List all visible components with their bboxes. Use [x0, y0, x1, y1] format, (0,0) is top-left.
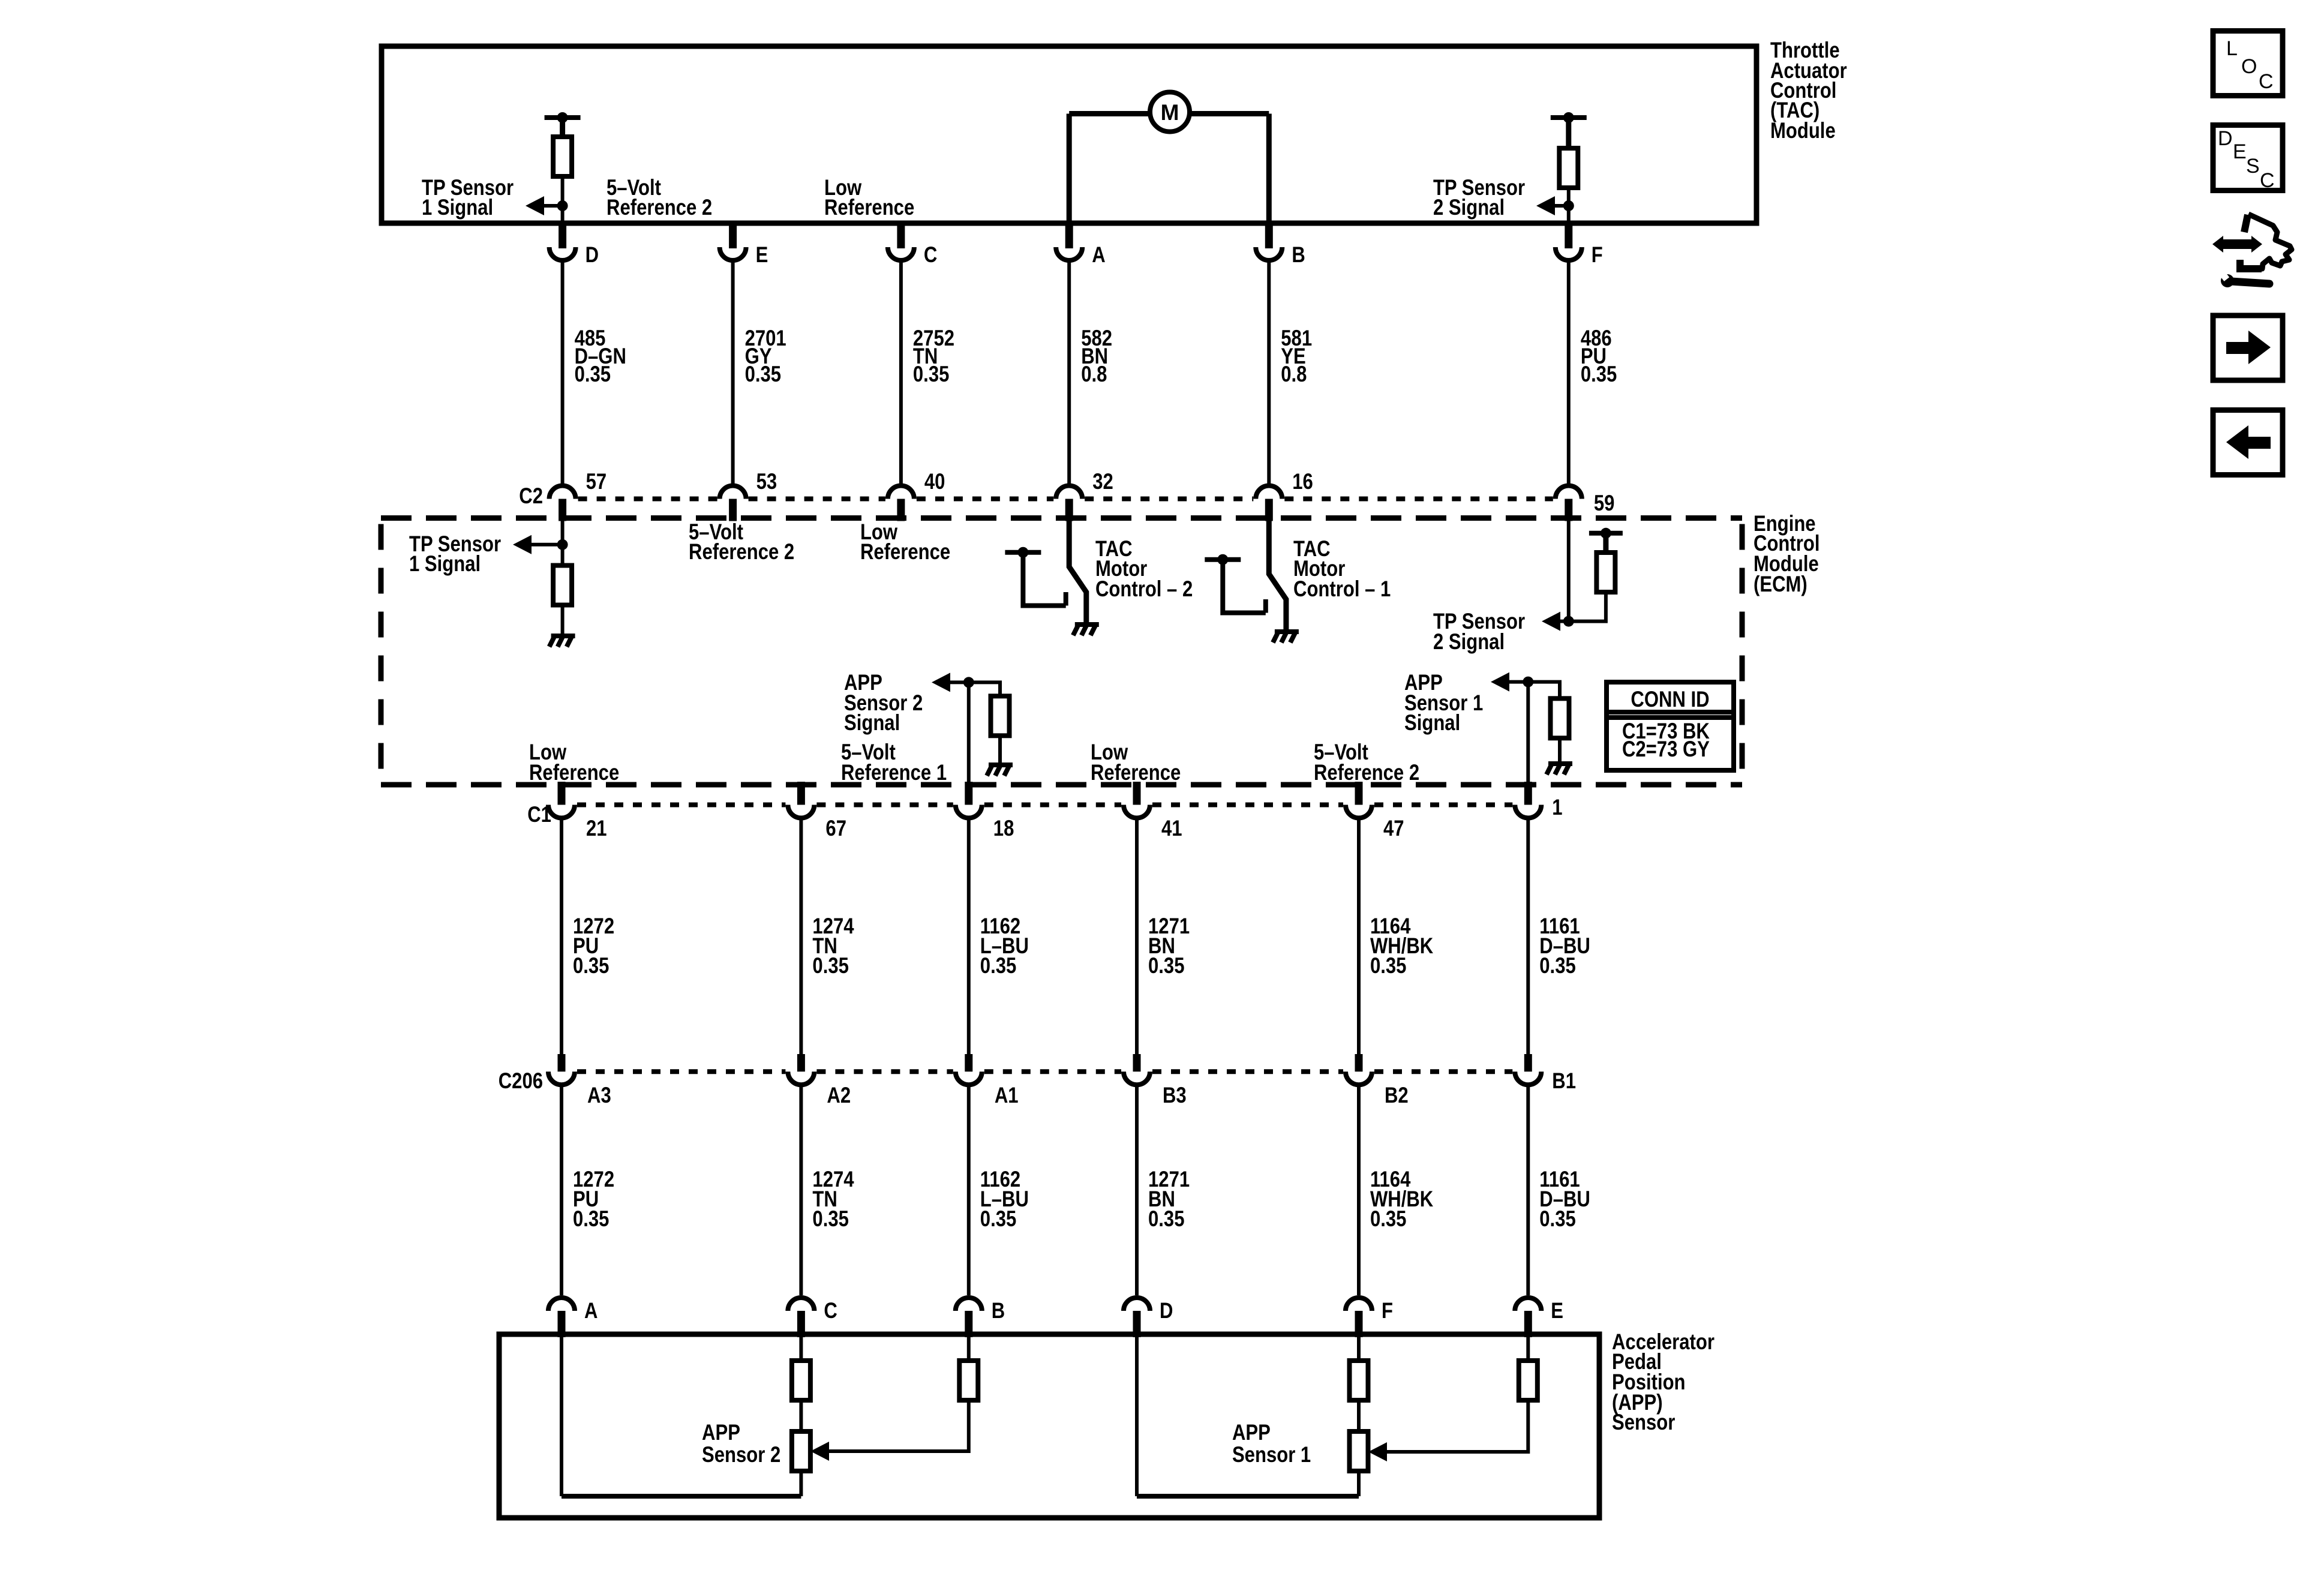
- C1 pin stub 41: [1133, 782, 1141, 805]
- wire: pin D down: [1135, 1334, 1139, 1496]
- C206 terminal A2: [788, 1071, 814, 1085]
- wire: motor right leg: [1266, 114, 1272, 224]
- label: TP Sensor 1 Signal (ECM): [409, 532, 501, 577]
- svg-text:41: 41: [1161, 816, 1182, 841]
- wire: C resistor to pot: [799, 1400, 803, 1431]
- resistor: TP sensor 1 load (ECM): [553, 566, 572, 605]
- APP pin terminal A: [548, 1298, 575, 1311]
- wire: B down to C2: [1267, 260, 1271, 484]
- wire: control bracket 1: [1223, 560, 1266, 613]
- junction: TP sensor 2 (ECM): [1563, 616, 1574, 627]
- svg-text:O: O: [2241, 55, 2257, 78]
- pin label A: [1092, 243, 1105, 268]
- resistor: APP sensor 1 load: [1551, 698, 1569, 738]
- tick up: control bracket 2: [1064, 592, 1068, 606]
- C1 pin number 21: [586, 816, 607, 841]
- label: APP Sensor 2: [702, 1421, 780, 1467]
- label: APP Sensor 1: [1232, 1421, 1311, 1467]
- potentiometer: APP Sensor 2: [792, 1431, 810, 1471]
- ground: TAC motor control 1: [1273, 629, 1299, 643]
- wire: C down to C2: [899, 260, 903, 484]
- C1 terminal 21: [548, 805, 575, 818]
- wire: C206-A1 down to APP: [967, 1085, 971, 1295]
- APP pin label B: [992, 1299, 1005, 1323]
- svg-text:1: 1: [1552, 795, 1562, 820]
- wire: C1-41 down to C206: [1135, 818, 1139, 1056]
- wire: arrow line APP2: [950, 680, 969, 684]
- APP pin stub D: [1133, 1311, 1141, 1337]
- wire: arrow line APP1: [1509, 680, 1528, 684]
- label: TP Sensor 2 Signal (TAC): [1433, 176, 1525, 220]
- wire: pot 2 bottom: [799, 1471, 803, 1496]
- resistor: TP sensor 1 pull-up: [553, 137, 572, 176]
- C2 harness dotted segment 2: [749, 497, 885, 502]
- icon: connector outline (hand): [2245, 214, 2292, 269]
- label: Throttle Actuator Control (TAC) Module: [1770, 38, 1847, 143]
- APP pin stub E: [1524, 1311, 1532, 1337]
- svg-text:16: 16: [1292, 470, 1313, 494]
- ground: TAC motor control 2: [1073, 622, 1099, 635]
- wire: B resistor to wiper: [829, 1400, 969, 1451]
- svg-text:B2: B2: [1385, 1083, 1409, 1108]
- wire: C206-B1 down to APP: [1526, 1085, 1530, 1295]
- svg-text:A2: A2: [827, 1083, 851, 1108]
- wire: control bracket 2: [1023, 553, 1065, 606]
- APP pin stub B: [965, 1311, 972, 1337]
- C1 harness dotted segment 1: [577, 803, 785, 807]
- tick up: control bracket 1: [1263, 599, 1268, 613]
- wire: F down to C2: [1567, 260, 1571, 484]
- pin terminal C (TAC): [888, 247, 914, 260]
- wire: pin B to resistor: [967, 1334, 971, 1361]
- APP pin label A: [584, 1299, 597, 1323]
- svg-text:F: F: [1382, 1299, 1393, 1323]
- C1 harness dotted segment 2: [816, 803, 953, 807]
- wire label 1271 (lower): [1148, 1167, 1190, 1232]
- wire: resistor to ground TP1: [561, 605, 565, 634]
- supply bar: TP sensor 2 (ECM): [1589, 531, 1623, 536]
- wire label 2752: [913, 326, 954, 387]
- connector C206 label: [499, 1069, 543, 1094]
- pin label C: [924, 243, 937, 268]
- svg-text:A: A: [584, 1299, 597, 1323]
- C1 harness dotted segment 5: [1374, 803, 1512, 807]
- wire: resistor 2 to junction: [1567, 188, 1571, 223]
- C1 pin stub 18: [965, 782, 972, 805]
- wire label 1272 (lower): [573, 1167, 614, 1232]
- wire: APP1 resistor to ground: [1558, 738, 1562, 761]
- wire: APP2 junction down to C1-18: [967, 682, 971, 804]
- C206 pin label B2: [1385, 1083, 1409, 1108]
- svg-text:21: 21: [586, 816, 607, 841]
- APP pin terminal D: [1124, 1298, 1150, 1311]
- wire label 1271 (upper): [1148, 914, 1190, 978]
- C206 pin stub B2: [1355, 1054, 1363, 1071]
- junction: TP sensor 1 signal: [557, 200, 568, 211]
- icon: double arrow: [2212, 236, 2262, 253]
- pin terminal A (TAC): [1056, 247, 1082, 260]
- pin label B: [1292, 243, 1305, 268]
- supply bar (TP sensor 1 pull-up): [545, 115, 581, 120]
- svg-text:ThrottleActuatorControl(TAC)Mo: ThrottleActuatorControl(TAC)Module: [1770, 38, 1847, 143]
- wire label 1162 (upper): [980, 914, 1029, 978]
- wire: C1-21 down to C206: [560, 818, 563, 1056]
- pin stub A (TAC): [1065, 223, 1073, 248]
- ECM box (dashed): [381, 518, 1742, 785]
- CONN ID title: [1631, 688, 1709, 712]
- wire: APP2 junction to resistor: [969, 682, 1000, 696]
- wire label 1161 (lower): [1539, 1167, 1590, 1232]
- C2 pin stub 32: [1065, 499, 1073, 521]
- pin terminal F (TAC): [1556, 247, 1582, 260]
- wire label 1161 (upper): [1539, 914, 1590, 978]
- C1 pin number 18: [993, 816, 1014, 841]
- label: APP Sensor 2 Signal: [844, 671, 923, 736]
- svg-text:53: 53: [756, 470, 777, 494]
- wire: TP2 resistor to junction: [1569, 592, 1606, 622]
- dot on control bar 1: [1217, 554, 1228, 565]
- wire: C1-47 down to C206: [1357, 818, 1361, 1056]
- C1 pin stub 67: [797, 782, 805, 805]
- icon: hand stub bottom: [2240, 260, 2262, 269]
- resistor: TP sensor 2 load (ECM): [1596, 553, 1615, 592]
- C206 terminal B3: [1124, 1071, 1150, 1085]
- label: 5-Volt Reference 1 (ECM bottom): [841, 740, 947, 785]
- label: Low Reference (ECM bottom left): [529, 740, 619, 785]
- svg-text:F: F: [1592, 243, 1603, 268]
- supply bar (TP sensor 2 pull-up): [1551, 115, 1587, 120]
- arrowhead: APP1 wiper: [1368, 1442, 1387, 1461]
- arrowhead: TP Sensor 1 Signal (ECM): [513, 535, 532, 554]
- C2 terminal 16: [1256, 486, 1282, 499]
- C1 terminal 47: [1346, 805, 1372, 818]
- wire: resistor to junction: [561, 176, 565, 223]
- wire label 1274 (lower): [812, 1167, 854, 1232]
- connector C1 label: [527, 803, 551, 827]
- label: Engine Control Module (ECM): [1753, 512, 1819, 597]
- C2 harness dotted segment 1: [578, 497, 717, 502]
- svg-text:D: D: [2218, 127, 2233, 150]
- wire: pin E to resistor: [1526, 1334, 1530, 1361]
- motor M circle: [1150, 92, 1190, 132]
- wire: motor loop left: [1069, 111, 1150, 116]
- C206 terminal A3: [548, 1071, 575, 1085]
- C206 pin label A3: [587, 1083, 611, 1108]
- C1 terminal 1: [1515, 805, 1541, 818]
- C206 terminal B2: [1346, 1071, 1372, 1085]
- svg-text:B1: B1: [1552, 1069, 1576, 1094]
- wire: bar to resistor: [560, 118, 565, 137]
- svg-text:C206: C206: [499, 1069, 543, 1094]
- wire: C2-59 to junction: [1567, 518, 1571, 622]
- wire: D down to C2: [561, 260, 565, 484]
- wire: C206-A2 down to APP: [799, 1085, 803, 1295]
- pin stub B (TAC): [1265, 223, 1273, 248]
- arrowhead: APP Sensor 2 Signal: [932, 673, 950, 692]
- label: TP Sensor 1 Signal (TAC): [422, 176, 514, 220]
- wire: APP1 bottom link: [1137, 1494, 1359, 1499]
- resistor: APP2 upper (pin C): [792, 1361, 810, 1400]
- arrowhead: APP2 wiper: [810, 1442, 829, 1461]
- wire: TP sensor 2 arrow line: [1554, 204, 1569, 208]
- wire: pin C to resistor: [799, 1334, 803, 1361]
- C2 pin stub 40: [897, 499, 905, 521]
- resistor: APP1 wiper feed (pin E): [1519, 1361, 1538, 1400]
- resistor: TP sensor 2 pull-up: [1559, 148, 1578, 188]
- wire: APP2 resistor to ground: [998, 736, 1002, 763]
- APP pin terminal C: [788, 1298, 814, 1311]
- ground: APP sensor 2: [987, 763, 1013, 776]
- pin stub F (TAC): [1565, 223, 1572, 248]
- icon: hand stub top: [2244, 215, 2248, 232]
- svg-text:E: E: [756, 243, 768, 268]
- C206 harness dotted segment 1: [577, 1069, 785, 1074]
- C2 harness dotted segment 4: [1085, 497, 1253, 502]
- C2 pin stub 57: [559, 499, 566, 521]
- svg-text:D: D: [1160, 1299, 1173, 1323]
- C2 pin number 57: [586, 470, 607, 494]
- C2 pin number 53: [756, 470, 777, 494]
- C2 harness dotted segment 5: [1284, 497, 1553, 502]
- label: TAC Motor Control - 2: [1095, 537, 1193, 602]
- APP sensor box: [499, 1334, 1599, 1518]
- wire label 2701: [745, 326, 786, 387]
- svg-text:C1=73 BKC2=73 GY: C1=73 BKC2=73 GY: [1622, 719, 1710, 762]
- wire label 1164 (lower): [1370, 1167, 1434, 1232]
- label: TP Sensor 2 Signal (ECM): [1433, 610, 1525, 655]
- wire: C1-18 down to C206: [967, 818, 971, 1056]
- C2 pin number 40: [924, 470, 945, 494]
- wire: A down to C2: [1067, 260, 1071, 484]
- APP pin label F: [1382, 1299, 1393, 1323]
- C2 harness dotted segment 3: [917, 497, 1053, 502]
- wire label 1274 (upper): [812, 914, 854, 978]
- svg-text:C2: C2: [519, 484, 543, 509]
- C1 pin number 41: [1161, 816, 1182, 841]
- C1 harness dotted segment 3: [984, 803, 1121, 807]
- pin label E: [756, 243, 768, 268]
- C206 terminal A1: [956, 1071, 982, 1085]
- pin label F: [1592, 243, 1603, 268]
- C206 pin stub B3: [1133, 1054, 1141, 1071]
- svg-text:B3: B3: [1163, 1083, 1187, 1108]
- APP pin terminal E: [1515, 1298, 1541, 1311]
- wire: E down to C2: [731, 260, 735, 484]
- wire label 1162 (lower): [980, 1167, 1029, 1232]
- C206 terminal B1: [1515, 1071, 1541, 1085]
- pin stub C (TAC): [897, 223, 905, 248]
- pin terminal B (TAC): [1256, 247, 1282, 260]
- wire: C1-67 down to C206: [799, 818, 803, 1056]
- wire: APP2 bottom link: [562, 1494, 801, 1499]
- svg-text:C: C: [2259, 70, 2274, 93]
- resistor: APP sensor 2 load: [991, 696, 1010, 736]
- C206 pin label B1: [1552, 1069, 1576, 1094]
- label: 5-Volt Reference 2 (ECM bottom): [1314, 740, 1419, 785]
- wire: C2-57 to junction: [561, 518, 565, 566]
- C2 terminal 59: [1556, 486, 1582, 499]
- svg-text:B: B: [1292, 243, 1305, 268]
- wire: C206-B2 down to APP: [1357, 1085, 1361, 1295]
- wire: pot 1 bottom: [1357, 1471, 1361, 1496]
- arrowhead: APP Sensor 1 Signal: [1491, 673, 1509, 692]
- wire: motor left leg: [1067, 114, 1072, 224]
- svg-text:A1: A1: [995, 1083, 1019, 1108]
- svg-text:59: 59: [1594, 491, 1615, 516]
- svg-text:C: C: [2260, 169, 2275, 192]
- icon: left arrow: [2226, 425, 2271, 459]
- svg-text:47: 47: [1383, 816, 1404, 841]
- junction dot on supply bar 2: [1563, 112, 1574, 123]
- CONN ID values: [1622, 719, 1710, 762]
- connector C2 label: [519, 484, 543, 509]
- C1 harness dotted segment 4: [1152, 803, 1343, 807]
- C206 pin label A2: [827, 1083, 851, 1108]
- svg-text:CONN ID: CONN ID: [1631, 688, 1709, 712]
- C2 pin stub 16: [1265, 499, 1273, 521]
- wire: TP sensor 1 arrow line: [543, 204, 563, 208]
- wire: arrow line TP1 (ECM): [532, 543, 563, 547]
- label: Low Reference (ECM bottom right): [1091, 740, 1181, 785]
- C206 pin stub B1: [1524, 1054, 1532, 1071]
- pin stub D (TAC): [559, 223, 566, 248]
- APP pin label D: [1160, 1299, 1173, 1323]
- wire: arrow line TP2 (ECM): [1560, 620, 1569, 623]
- wire: C1-1 down to C206: [1526, 818, 1530, 1056]
- C2 terminal 40: [888, 486, 914, 499]
- APP pin label C: [824, 1299, 837, 1323]
- C2 pin number 32: [1092, 470, 1113, 494]
- control bar: TAC motor control 2: [1005, 550, 1041, 555]
- C206 pin label A1: [995, 1083, 1019, 1108]
- wire label 486: [1581, 326, 1617, 387]
- C2 terminal 57: [550, 486, 576, 499]
- wire: pin A down: [560, 1334, 563, 1496]
- label: 5-Volt Reference 2 (ECM top): [689, 520, 794, 565]
- wire: motor control 2 switch to ground: [1069, 518, 1086, 623]
- C1 terminal 41: [1124, 805, 1150, 818]
- APP pin terminal F: [1346, 1298, 1372, 1311]
- svg-text:57: 57: [586, 470, 607, 494]
- wire: bar to resistor 2: [1566, 118, 1571, 148]
- svg-text:67: 67: [825, 816, 846, 841]
- wire: APP1 junction down to C1-1: [1526, 682, 1530, 805]
- C2 terminal 53: [720, 486, 746, 499]
- ground: TP sensor 1 (ECM): [550, 634, 575, 647]
- icon box: LOC: [2213, 31, 2283, 96]
- dot on TP2 supply bar: [1601, 528, 1611, 539]
- icon: wrench: [2218, 269, 2269, 287]
- label: APP Sensor 1 Signal: [1404, 671, 1483, 736]
- svg-text:D: D: [585, 243, 599, 268]
- resistor: APP2 wiper feed (pin B): [959, 1361, 978, 1400]
- C206 harness dotted segment 3: [984, 1069, 1121, 1074]
- wire: F resistor to pot: [1357, 1400, 1361, 1431]
- C2 terminal 32: [1056, 486, 1082, 499]
- C1 pin stub 1: [1524, 782, 1532, 805]
- svg-text:B: B: [992, 1299, 1005, 1323]
- wire: C206-B3 down to APP: [1135, 1085, 1139, 1295]
- ground: APP sensor 1: [1547, 761, 1572, 775]
- C1 pin stub 21: [558, 782, 566, 805]
- resistor: APP1 upper (pin F): [1350, 1361, 1368, 1400]
- pin terminal D (TAC): [550, 247, 576, 260]
- TAC module box: [382, 46, 1756, 223]
- wire label 582: [1081, 326, 1112, 387]
- APP pin terminal B: [956, 1298, 982, 1311]
- APP pin label E: [1551, 1299, 1563, 1323]
- svg-text:40: 40: [924, 470, 945, 494]
- label: Accelerator Pedal Position (APP) Sensor: [1612, 1330, 1715, 1435]
- pin label D: [585, 243, 599, 268]
- C1 pin number 1: [1552, 795, 1562, 820]
- control bar: TAC motor control 1: [1205, 557, 1241, 562]
- arrowhead: TP Sensor 2 Signal (ECM): [1542, 612, 1560, 631]
- svg-text:A: A: [1092, 243, 1105, 268]
- svg-text:L: L: [2226, 37, 2238, 60]
- C2 pin stub 59: [1565, 499, 1572, 521]
- pin stub E (TAC): [729, 223, 737, 248]
- svg-text:32: 32: [1092, 470, 1113, 494]
- wire: C206-A3 down to APP: [560, 1085, 563, 1295]
- svg-text:M: M: [1161, 100, 1179, 125]
- wire: E resistor to wiper: [1387, 1400, 1528, 1452]
- icon box: DESC: [2213, 125, 2283, 191]
- C1 pin stub 47: [1355, 782, 1363, 805]
- potentiometer: APP Sensor 1: [1350, 1431, 1368, 1471]
- svg-text:C: C: [824, 1299, 837, 1323]
- wire: APP1 junction to resistor: [1528, 682, 1560, 699]
- junction: APP sensor 1 signal: [1523, 677, 1533, 688]
- C2 pin number 16: [1292, 470, 1313, 494]
- wire label 1272 (upper): [573, 914, 614, 978]
- arrowhead: TP Sensor 2 Signal: [1536, 196, 1555, 215]
- svg-text:E: E: [2233, 140, 2247, 163]
- svg-text:18: 18: [993, 816, 1014, 841]
- junction dot on supply bar: [557, 112, 568, 123]
- C1 terminal 18: [956, 805, 982, 818]
- label: TAC Motor Control - 1: [1293, 537, 1391, 602]
- C1 pin number 47: [1383, 816, 1404, 841]
- icon box: back arrow: [2213, 410, 2283, 475]
- C2 pin number 59: [1594, 491, 1615, 516]
- C1 pin number 67: [825, 816, 846, 841]
- svg-text:C: C: [924, 243, 937, 268]
- C206 pin stub A2: [797, 1054, 805, 1071]
- C206 pin label B3: [1163, 1083, 1187, 1108]
- junction: TP sensor 2 signal: [1563, 200, 1574, 211]
- icon box: next arrow: [2213, 316, 2283, 380]
- wire label 1164 (upper): [1370, 914, 1434, 978]
- junction: APP sensor 2 signal: [963, 677, 974, 688]
- dot on control bar 2: [1017, 547, 1028, 558]
- APP pin stub F: [1355, 1311, 1363, 1337]
- C1 terminal 67: [788, 805, 814, 818]
- svg-text:E: E: [1551, 1299, 1563, 1323]
- wire: motor loop right: [1190, 111, 1269, 116]
- C206 pin stub A1: [965, 1054, 972, 1071]
- wire label 485: [575, 326, 626, 387]
- C2 pin stub 53: [729, 499, 737, 521]
- CONN ID table box: [1607, 682, 1734, 770]
- C206 harness dotted segment 2: [816, 1069, 953, 1074]
- APP pin stub C: [797, 1311, 805, 1337]
- wire: TP2 bar to resistor: [1603, 533, 1608, 553]
- label: 5-Volt Reference 2 (TAC): [606, 176, 712, 220]
- svg-text:A3: A3: [587, 1083, 611, 1108]
- junction: TP sensor 1 (ECM): [557, 539, 568, 550]
- wire label 581: [1281, 326, 1312, 387]
